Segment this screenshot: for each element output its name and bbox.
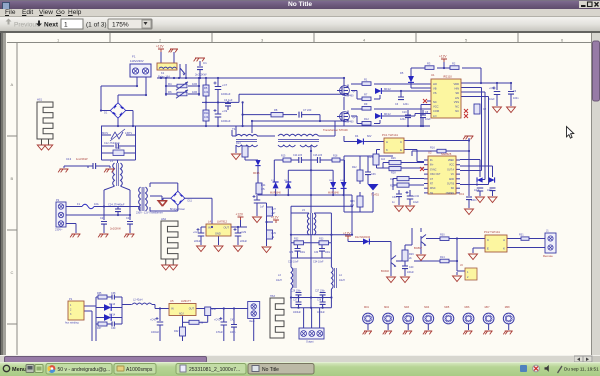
- svg-text:A: A: [386, 140, 388, 144]
- svg-text:C1: C1: [203, 61, 207, 65]
- svg-text:D5: D5: [400, 71, 404, 75]
- svg-text:K1: K1: [161, 71, 165, 75]
- svg-text:MF16: MF16: [253, 172, 260, 175]
- svg-text:1k2: 1k2: [381, 158, 386, 161]
- svg-text:D11: D11: [188, 200, 193, 203]
- svg-text:R9: R9: [364, 102, 368, 106]
- svg-text:220uF: 220uF: [194, 240, 202, 243]
- svg-text:VREF: VREF: [448, 160, 455, 162]
- svg-text:C: C: [487, 238, 489, 242]
- svg-text:U5: U5: [170, 299, 174, 303]
- svg-text:+C41: +C41: [214, 319, 220, 322]
- svg-text:C30: C30: [392, 196, 397, 199]
- svg-text:SS: SS: [430, 193, 434, 195]
- svg-text:25331081_2_1000x7...: 25331081_2_1000x7...: [189, 367, 240, 373]
- svg-text:+C9: +C9: [222, 109, 228, 113]
- svg-text:2n2/2KW: 2n2/2KW: [110, 227, 121, 231]
- svg-text:C36: C36: [371, 173, 376, 176]
- svg-text:+C32: +C32: [413, 195, 420, 198]
- svg-text:GND: GND: [215, 232, 221, 236]
- svg-text:R10: R10: [116, 147, 121, 150]
- svg-text:R37: R37: [97, 327, 102, 330]
- svg-text:C30: C30: [314, 252, 319, 254]
- svg-text:MF12: MF12: [384, 87, 391, 91]
- svg-text:R1: R1: [364, 78, 368, 82]
- svg-text:R24: R24: [368, 156, 373, 159]
- svg-text:MF13: MF13: [109, 303, 116, 306]
- svg-text:100n: 100n: [513, 97, 519, 100]
- svg-text:C26 100n: C26 100n: [291, 291, 302, 293]
- svg-text:C25: C25: [100, 217, 105, 220]
- svg-text:L2 42uH: L2 42uH: [133, 299, 143, 302]
- svg-text:R32: R32: [294, 238, 299, 241]
- svg-text:+C40: +C40: [150, 319, 156, 322]
- svg-text:Du sep 11, 19:51: Du sep 11, 19:51: [564, 367, 599, 372]
- svg-text:C: C: [11, 270, 14, 275]
- svg-text:K: K: [386, 148, 388, 152]
- svg-text:OSC OUT: OSC OUT: [430, 174, 441, 176]
- svg-text:1: 1: [64, 22, 68, 29]
- svg-text:+12V: +12V: [271, 216, 279, 220]
- svg-text:2n2/2KW: 2n2/2KW: [195, 73, 207, 77]
- svg-text:C42: C42: [230, 319, 235, 322]
- svg-text:Q2: Q2: [352, 115, 356, 119]
- svg-text:SD: SD: [455, 91, 459, 95]
- svg-text:R11: R11: [204, 111, 209, 115]
- svg-text:M08: M08: [505, 306, 510, 309]
- svg-text:104: 104: [204, 90, 209, 94]
- svg-text:M01: M01: [364, 306, 369, 309]
- svg-text:OUT: OUT: [189, 308, 195, 311]
- svg-text:+C27: +C27: [193, 231, 200, 234]
- svg-text:NC: NC: [455, 105, 459, 109]
- svg-text:VB: VB: [433, 87, 437, 91]
- svg-text:R12: R12: [364, 117, 369, 121]
- svg-text:BC847: BC847: [414, 246, 422, 250]
- svg-text:Vaux: Vaux: [249, 319, 255, 323]
- svg-text:IN: IN: [208, 226, 211, 230]
- svg-text:IN: IN: [171, 308, 174, 311]
- svg-text:Relay 16A: Relay 16A: [158, 75, 170, 79]
- svg-text:L1: L1: [110, 159, 113, 163]
- svg-text:1000uF: 1000uF: [317, 312, 325, 314]
- svg-text:HIN: HIN: [455, 87, 460, 91]
- svg-text:R7: R7: [364, 93, 368, 97]
- svg-text:120u: 120u: [400, 118, 406, 121]
- svg-text:R8: R8: [274, 108, 278, 112]
- svg-text:MF12: MF12: [384, 112, 391, 116]
- svg-text:LIN: LIN: [455, 96, 459, 100]
- svg-text:10R: 10R: [192, 90, 197, 94]
- svg-text:470uF: 470uF: [216, 331, 223, 334]
- svg-text:CMPEN: CMPEN: [446, 193, 455, 195]
- svg-text:C16 223: C16 223: [313, 154, 323, 157]
- svg-text:IR2110: IR2110: [443, 75, 452, 79]
- svg-text:10A: 10A: [94, 202, 99, 206]
- svg-text:175%: 175%: [112, 22, 129, 29]
- svg-text:R26: R26: [391, 157, 396, 160]
- svg-text:C14 223: C14 223: [293, 154, 303, 157]
- svg-text:R32: R32: [174, 330, 179, 333]
- svg-text:P1: P1: [69, 297, 73, 301]
- svg-text:COM: COM: [433, 109, 439, 113]
- svg-text:C38: C38: [317, 300, 322, 302]
- svg-text:+C5: +C5: [489, 87, 494, 90]
- svg-text:R16: R16: [430, 146, 435, 150]
- svg-text:R3: R3: [427, 62, 431, 66]
- svg-text:50 v - andreigradu@g...: 50 v - andreigradu@g...: [58, 367, 111, 373]
- svg-text:R22: R22: [352, 166, 357, 169]
- svg-text:VDD: VDD: [454, 82, 460, 86]
- svg-text:+C7: +C7: [222, 83, 228, 87]
- svg-text:C24 JT/440uF: C24 JT/440uF: [108, 203, 125, 207]
- svg-text:C40: C40: [409, 266, 414, 269]
- svg-text:SG3525: SG3525: [441, 152, 452, 156]
- svg-text:L4: L4: [208, 220, 212, 224]
- svg-text:Q1: Q1: [352, 89, 356, 93]
- svg-text:T1: T1: [232, 127, 236, 131]
- svg-text:R15: R15: [281, 155, 286, 158]
- svg-text:BC640: BC640: [381, 269, 389, 273]
- svg-text:100uF: 100uF: [407, 271, 414, 274]
- svg-text:R27: R27: [272, 208, 277, 211]
- svg-text:DISC: DISC: [430, 188, 436, 190]
- svg-text:1000uF: 1000uF: [293, 312, 301, 314]
- svg-text:C38: C38: [111, 292, 116, 295]
- svg-text:OC1: OC1: [459, 193, 465, 196]
- svg-text:SD: SD: [451, 188, 455, 190]
- svg-text:D4: D4: [355, 134, 359, 138]
- svg-text:230V - 12V Transformer: 230V - 12V Transformer: [136, 212, 163, 215]
- svg-text:100n: 100n: [471, 199, 477, 202]
- svg-text:100n: 100n: [230, 331, 236, 334]
- svg-text:R31: R31: [519, 234, 524, 237]
- svg-text:C: C: [400, 140, 402, 144]
- svg-text:U2: U2: [428, 151, 432, 155]
- svg-text:100n: 100n: [325, 252, 331, 254]
- svg-text:104: 104: [204, 115, 209, 119]
- svg-text:10uF: 10uF: [489, 98, 495, 101]
- svg-text:K: K: [503, 247, 505, 251]
- svg-text:R24: R24: [261, 184, 266, 187]
- svg-text:VCC: VCC: [449, 165, 454, 167]
- svg-text:IRFP460: IRFP460: [344, 95, 354, 98]
- svg-text:Previous: Previous: [14, 22, 40, 29]
- svg-text:110V/230V: 110V/230V: [130, 59, 144, 63]
- svg-text:SYNC: SYNC: [430, 169, 437, 171]
- svg-text:145TV: 145TV: [125, 132, 132, 135]
- svg-text:IRFP460: IRFP460: [344, 121, 354, 124]
- svg-text:C13: C13: [66, 157, 72, 161]
- svg-text:100n: 100n: [300, 252, 306, 254]
- svg-text:230V~: 230V~: [55, 228, 63, 232]
- svg-text:M03: M03: [404, 306, 409, 309]
- svg-text:GND: GND: [449, 179, 454, 181]
- svg-text:C29: C29: [289, 252, 294, 254]
- svg-text:NC: NC: [433, 100, 437, 104]
- svg-text:R30: R30: [212, 308, 217, 311]
- svg-text:R28: R28: [391, 172, 396, 175]
- svg-text:Next: Next: [44, 22, 59, 29]
- svg-text:C33 10nF: C33 10nF: [288, 261, 299, 264]
- svg-text:R4: R4: [168, 82, 172, 86]
- svg-text:Transformer STD49: Transformer STD49: [323, 128, 348, 132]
- svg-text:TL431: TL431: [371, 193, 379, 197]
- svg-text:LM317T: LM317T: [181, 299, 191, 303]
- svg-text:R35: R35: [97, 292, 102, 295]
- svg-text:R36: R36: [350, 200, 355, 203]
- svg-text:R29: R29: [409, 253, 414, 256]
- svg-text:C4 1uF: C4 1uF: [224, 98, 233, 102]
- svg-text:LO: LO: [433, 114, 436, 118]
- svg-text:R18: R18: [333, 155, 338, 158]
- svg-text:+12V: +12V: [439, 55, 447, 59]
- svg-text:HO: HO: [433, 82, 437, 86]
- svg-text:U1: U1: [431, 73, 435, 77]
- svg-text:R13: R13: [236, 142, 241, 145]
- svg-text:E: E: [487, 247, 489, 251]
- svg-text:R30: R30: [440, 234, 445, 237]
- svg-text:R2: R2: [452, 62, 456, 66]
- svg-text:MOV: MOV: [102, 131, 108, 135]
- svg-text:MUR1640: MUR1640: [328, 192, 339, 195]
- svg-text:R6: R6: [168, 90, 172, 94]
- svg-text:R5: R5: [204, 86, 208, 90]
- svg-text:Output: Output: [306, 341, 314, 344]
- svg-text:ADJ: ADJ: [179, 313, 184, 316]
- svg-text:1000uF: 1000uF: [221, 119, 231, 123]
- svg-text:120n: 120n: [403, 103, 409, 106]
- svg-text:10R: 10R: [192, 82, 197, 86]
- svg-text:220uF: 220uF: [240, 240, 248, 243]
- svg-text:B: B: [11, 176, 14, 181]
- svg-text:D12 MUR160: D12 MUR160: [355, 236, 371, 239]
- svg-text:R33: R33: [319, 238, 324, 241]
- svg-text:C37: C37: [293, 300, 298, 302]
- svg-text:C10: C10: [402, 111, 407, 114]
- svg-text:D1: D1: [104, 111, 108, 115]
- svg-text:10uF: 10uF: [425, 118, 431, 121]
- svg-text:C39: C39: [111, 327, 116, 330]
- svg-text:MF14: MF14: [109, 314, 116, 317]
- svg-text:Remote: Remote: [543, 254, 553, 258]
- svg-text:M07: M07: [485, 306, 490, 309]
- svg-text:R29: R29: [272, 232, 277, 235]
- svg-text:OUT: OUT: [224, 226, 230, 230]
- svg-text:Aux winding: Aux winding: [65, 322, 79, 325]
- svg-text:OUT A: OUT A: [447, 168, 454, 171]
- svg-text:PC1 TLP141: PC1 TLP141: [382, 133, 398, 137]
- svg-text:VC: VC: [451, 174, 455, 176]
- svg-text:VCC: VCC: [433, 105, 439, 109]
- svg-text:1000uF: 1000uF: [151, 331, 160, 334]
- svg-text:+12V: +12V: [156, 45, 164, 49]
- svg-text:10uF: 10uF: [413, 201, 419, 204]
- svg-text:+12V: +12V: [236, 213, 244, 217]
- svg-text:R27: R27: [390, 178, 395, 181]
- svg-text:HS1: HS1: [37, 98, 43, 102]
- svg-text:LM7812: LM7812: [217, 220, 228, 224]
- svg-text:1n2/2KW: 1n2/2KW: [76, 157, 88, 161]
- svg-text:M04: M04: [424, 306, 429, 309]
- svg-text:(1 of 3): (1 of 3): [86, 22, 107, 29]
- svg-text:10uH: 10uH: [339, 279, 345, 282]
- svg-text:C27 100n: C27 100n: [315, 291, 326, 293]
- svg-text:60V: 60V: [367, 135, 372, 138]
- svg-text:OUT B: OUT B: [447, 184, 454, 186]
- svg-text:+C29: +C29: [240, 231, 247, 234]
- svg-text:C12 JT/440uF: C12 JT/440uF: [104, 142, 120, 145]
- svg-text:1000uF: 1000uF: [221, 92, 231, 96]
- svg-text:C26: C26: [126, 217, 131, 220]
- svg-text:C7 223: C7 223: [303, 108, 312, 112]
- svg-text:1uF: 1uF: [260, 206, 265, 209]
- svg-text:VSS: VSS: [454, 100, 459, 104]
- svg-text:No Title: No Title: [262, 367, 279, 373]
- svg-text:10uH: 10uH: [276, 279, 282, 282]
- svg-text:M02: M02: [384, 306, 389, 309]
- svg-text:A: A: [503, 238, 505, 242]
- svg-text:PC2 TLP141: PC2 TLP141: [484, 230, 500, 234]
- svg-text:HS2: HS2: [161, 217, 167, 221]
- svg-text:P2: P2: [56, 198, 60, 202]
- svg-text:A: A: [11, 82, 14, 87]
- svg-text:+12V: +12V: [343, 232, 351, 236]
- svg-text:C34 10nF: C34 10nF: [313, 261, 324, 264]
- svg-text:M05: M05: [444, 306, 449, 309]
- svg-text:R25: R25: [390, 185, 395, 188]
- svg-text:E: E: [400, 148, 402, 152]
- svg-text:Bridge/Power: Bridge/Power: [170, 208, 185, 211]
- svg-text:IN-: IN-: [430, 160, 433, 162]
- svg-text:M06: M06: [465, 306, 470, 309]
- svg-text:Menu: Menu: [12, 367, 26, 373]
- svg-text:NC: NC: [455, 109, 459, 113]
- svg-text:R14: R14: [440, 256, 445, 259]
- svg-text:A1000smps: A1000smps: [126, 367, 153, 373]
- svg-text:F1: F1: [132, 55, 136, 59]
- svg-text:VS: VS: [433, 91, 437, 95]
